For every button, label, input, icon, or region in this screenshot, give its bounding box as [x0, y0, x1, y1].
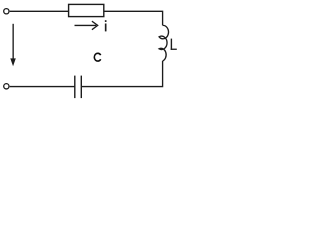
wire top-left to resistor	[10, 10, 69, 12]
inductor L coil	[159, 25, 168, 61]
terminal top-left	[4, 9, 9, 14]
label C (capacitor)	[94, 53, 100, 61]
label L (inductor)	[171, 39, 177, 50]
capacitor right plate	[80, 76, 82, 99]
downward arrow head	[10, 58, 16, 66]
downward arrow line (port annotation)	[12, 24, 14, 60]
label i (current)	[105, 20, 107, 31]
wire capacitor to bottom-left terminal	[10, 86, 75, 88]
wire resistor to top-right corner	[104, 11, 163, 25]
capacitor left plate	[74, 76, 76, 99]
wire inductor bottom to bottom-right corner	[81, 61, 162, 87]
terminal bottom-left	[4, 84, 9, 89]
current arrow i	[75, 24, 97, 26]
resistor R (box)	[69, 4, 104, 16]
